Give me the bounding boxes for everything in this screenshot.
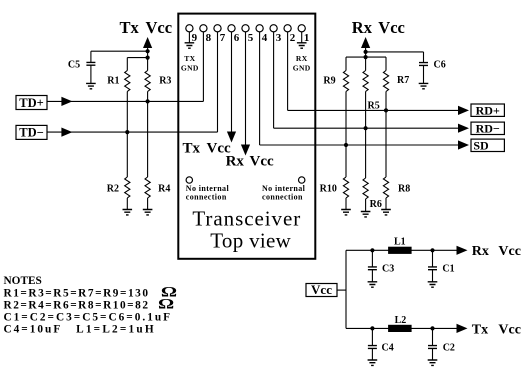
resistor R1 [125, 71, 130, 92]
pin 1 [298, 25, 305, 32]
svg-text:R6: R6 [370, 199, 382, 210]
svg-text:Rx: Rx [352, 18, 373, 37]
wire Rx Vcc column top [365, 46, 367, 71]
wire R7 top [385, 57, 387, 70]
svg-text:R4: R4 [158, 184, 170, 195]
svg-text:Tx: Tx [183, 141, 201, 157]
port Vcc [306, 284, 337, 297]
svg-text:C4: C4 [382, 343, 394, 354]
ground (C5) [86, 83, 96, 88]
wire to C5 [91, 50, 148, 52]
svg-text:R10: R10 [320, 184, 337, 195]
svg-text:SD: SD [473, 138, 489, 152]
resistor R9 [343, 71, 348, 92]
TX GND ground [185, 43, 195, 48]
svg-text:C4=10uF: C4=10uF [4, 323, 63, 335]
capacitor C3 [371, 250, 373, 267]
pin 7 [214, 25, 221, 32]
arrow RD- [458, 124, 469, 133]
svg-text:Rx: Rx [472, 244, 489, 259]
ground (R10) [341, 210, 351, 215]
inductor L1 [388, 247, 412, 254]
resistor R7 [383, 71, 388, 92]
svg-text:connection: connection [186, 193, 227, 202]
svg-text:Vcc: Vcc [498, 244, 521, 259]
svg-text:RD−: RD− [476, 121, 500, 135]
pin 2 [284, 25, 291, 32]
svg-text:GND: GND [293, 64, 311, 73]
ground (C3) [368, 282, 378, 287]
svg-text:5: 5 [248, 32, 254, 44]
port TD+ [16, 96, 47, 110]
svg-text:Tx: Tx [472, 322, 488, 337]
svg-text:Tx: Tx [120, 18, 140, 37]
pin 5 arrow (Rx Vcc) [241, 145, 250, 156]
node junction R9/R7 feed [364, 55, 368, 59]
wire R8 to ground [385, 198, 387, 210]
svg-text:2: 2 [290, 32, 296, 44]
wire R7 to R8 [385, 92, 387, 178]
svg-text:6: 6 [234, 32, 240, 44]
svg-text:Transceiver: Transceiver [192, 207, 301, 231]
svg-text:Vcc: Vcc [498, 322, 521, 337]
svg-text:Top view: Top view [210, 229, 291, 253]
node junction C5 feed [146, 49, 150, 53]
svg-text:C1: C1 [442, 263, 454, 274]
port TD- [16, 125, 47, 139]
wire Vcc to feed [337, 289, 346, 291]
resistor R5 [363, 71, 368, 92]
wire to C6 [366, 51, 424, 53]
ground (C2) [428, 360, 438, 365]
arrow SD [458, 140, 469, 149]
junction R1/TD- [125, 130, 129, 134]
svg-text:Rx: Rx [226, 154, 245, 170]
wire RD- from pin 3 [274, 127, 459, 129]
wire R1 feed [127, 57, 147, 59]
Rx Vcc arrow [361, 37, 370, 48]
svg-text:4: 4 [262, 32, 268, 44]
wire TD- to pin 7 [47, 131, 218, 133]
svg-text:Ω: Ω [158, 295, 174, 312]
wire Tx Vcc column top [147, 46, 149, 71]
svg-text:NOTES: NOTES [4, 275, 42, 287]
ground (C1) [428, 282, 438, 287]
resistor R2 [125, 177, 130, 198]
svg-text:R1=R3=R5=R7=R9=130: R1=R3=R5=R7=R9=130 [4, 288, 150, 300]
wire Vcc feed vertical [345, 250, 347, 328]
svg-text:8: 8 [206, 32, 212, 44]
resistor R8 [383, 177, 388, 198]
ground (R4) [143, 210, 153, 215]
junction C4 [370, 326, 374, 330]
wire R5 to R6 [365, 92, 367, 179]
port RD- [471, 122, 504, 134]
ground (R6) [361, 212, 371, 217]
junction R5/RD- [364, 126, 368, 130]
svg-text:C2: C2 [443, 343, 455, 354]
port SD [471, 139, 504, 151]
RX GND ground [297, 43, 307, 48]
no internal connection circle (left) [186, 177, 192, 183]
wire R9 to R10 [345, 92, 347, 178]
wire R3 to R4 [147, 92, 149, 178]
transceiver U1 body [178, 14, 315, 259]
svg-text:Vcc: Vcc [250, 154, 274, 170]
svg-text:R9: R9 [323, 76, 335, 87]
svg-text:GND: GND [181, 64, 199, 73]
svg-text:R3: R3 [159, 76, 171, 87]
svg-text:Vcc: Vcc [146, 18, 173, 37]
arrow TD+ [61, 97, 72, 106]
svg-text:C3: C3 [382, 263, 394, 274]
junction R3/TD+ [146, 99, 150, 103]
capacitor C1 [432, 250, 434, 267]
node junction C6 feed [364, 50, 368, 54]
pin 5 [242, 25, 249, 32]
capacitor C6 [423, 52, 425, 63]
svg-text:R7: R7 [397, 75, 409, 86]
wire R9 top [345, 57, 347, 70]
capacitor C5 [90, 51, 92, 62]
ground (C4) [368, 360, 378, 365]
Tx Vcc arrow [143, 37, 152, 48]
arrow RD+ [458, 106, 469, 115]
resistor R10 [343, 177, 348, 198]
svg-text:RX: RX [296, 54, 308, 63]
svg-text:L1: L1 [394, 236, 406, 247]
node junction R1 feed [146, 56, 150, 60]
svg-text:C5: C5 [68, 59, 80, 70]
no internal connection circle (right) [299, 177, 305, 183]
wire R1 to R2 [126, 92, 128, 178]
svg-text:connection: connection [262, 193, 303, 202]
wire SD from pin 4 [260, 144, 459, 146]
pin 8 [200, 25, 207, 32]
pin 6 [228, 25, 235, 32]
resistor R6 [363, 178, 368, 199]
svg-text:TD+: TD+ [19, 96, 44, 110]
wire TD+ to pin 8 [47, 100, 203, 102]
ground (R2) [123, 210, 133, 215]
junction C1 [430, 248, 434, 252]
resistor R4 [145, 177, 150, 198]
junction R7/RD+ [384, 108, 388, 112]
wire Tx Vcc branch [346, 327, 458, 329]
resistor R3 [145, 71, 150, 92]
svg-text:L1=L2=1uH: L1=L2=1uH [76, 323, 156, 335]
wire R4 to ground [147, 198, 149, 210]
svg-text:C1=C2=C3=C5=C6=0.1uF: C1=C2=C3=C5=C6=0.1uF [4, 312, 173, 324]
junction C2 [430, 326, 434, 330]
svg-text:TX: TX [184, 54, 195, 63]
wire R2 to ground [126, 198, 128, 210]
svg-text:Vcc: Vcc [378, 18, 405, 37]
wire R9-R7 feed [346, 56, 386, 58]
pin 6 arrow (Tx Vcc) [227, 132, 236, 143]
arrow Tx Vcc out [457, 324, 468, 333]
svg-text:RD+: RD+ [476, 103, 500, 117]
pin 3 [270, 25, 277, 32]
svg-text:TD−: TD− [19, 126, 44, 140]
port RD+ [471, 104, 504, 116]
ground (C6) [419, 83, 429, 88]
junction C3 [370, 248, 374, 252]
pin 9 [186, 25, 193, 32]
arrow Rx Vcc out [457, 246, 468, 255]
ground (R8) [381, 210, 391, 215]
svg-text:R8: R8 [398, 184, 410, 195]
svg-text:3: 3 [276, 32, 282, 44]
svg-text:Vcc: Vcc [311, 282, 332, 297]
pin 4 [256, 25, 263, 32]
inductor L2 [388, 325, 412, 332]
junction R9/SD [344, 143, 348, 147]
svg-text:L2: L2 [395, 315, 407, 326]
capacitor C4 [371, 328, 373, 345]
svg-text:7: 7 [220, 32, 226, 44]
wire Rx Vcc branch [346, 249, 458, 251]
wire R10 to ground [345, 198, 347, 210]
svg-text:R1: R1 [107, 76, 119, 87]
svg-text:R2=R4=R6=R8=R10=82: R2=R4=R6=R8=R10=82 [4, 300, 150, 312]
wire RD+ from pin 2 [288, 109, 459, 111]
capacitor C2 [432, 328, 434, 345]
svg-text:C6: C6 [434, 59, 446, 70]
svg-text:R2: R2 [107, 184, 119, 195]
wire R6 to ground [365, 199, 367, 212]
arrow TD- [61, 128, 72, 137]
